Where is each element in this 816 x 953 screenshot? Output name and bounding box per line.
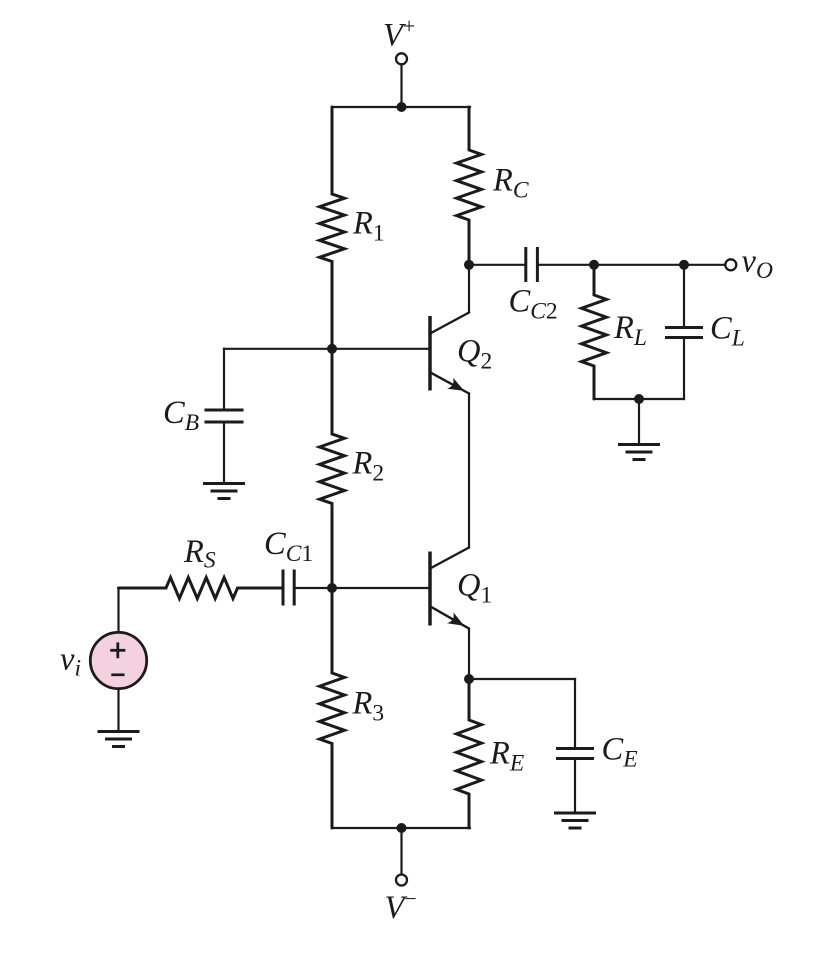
label V- <box>385 886 417 926</box>
terminal V+ <box>396 53 407 64</box>
ground CB <box>203 484 245 499</box>
terminal vO <box>725 259 736 270</box>
ground CE <box>554 813 596 828</box>
wire CB to ground <box>223 424 225 484</box>
resistor RL <box>582 265 607 399</box>
label RS <box>183 534 216 574</box>
wire Q1 emitter <box>468 629 470 679</box>
wire Q1 base <box>296 587 429 589</box>
junction RL top node <box>589 260 599 270</box>
label R2 <box>352 446 385 487</box>
wire emitter to CE <box>469 678 575 680</box>
wire output ground stem <box>638 399 640 444</box>
wire Q2 base <box>332 348 429 350</box>
junction output ground node <box>634 394 644 404</box>
wire CB branch <box>224 348 332 350</box>
wire Q2 collector <box>468 265 470 313</box>
transistor Q1 <box>430 548 469 629</box>
source vi <box>90 632 146 688</box>
resistor R1 <box>320 107 345 349</box>
junction Q2 base node <box>327 344 337 354</box>
ground vi <box>98 732 140 747</box>
wire V+ stem <box>400 65 402 108</box>
wire CC2 left lead <box>469 264 524 266</box>
capacitor CB <box>205 410 244 422</box>
junction top rail node <box>397 102 407 112</box>
wire top rail <box>332 106 470 108</box>
label vi <box>60 642 81 682</box>
label CL <box>710 311 745 352</box>
resistor RS <box>119 578 282 599</box>
label R3 <box>352 686 385 727</box>
transistor Q2 <box>430 313 469 394</box>
label RL <box>613 310 647 351</box>
wire RL CL bottom <box>594 398 684 400</box>
capacitor CL <box>665 265 703 399</box>
label RC <box>492 163 529 204</box>
wire source to ground <box>117 689 119 731</box>
resistor RC <box>457 107 482 265</box>
resistor RE <box>457 679 482 828</box>
capacitor CC2 <box>526 247 538 282</box>
ground output <box>618 445 660 460</box>
junction Q1 base node <box>327 583 337 593</box>
label Q2 <box>457 334 492 375</box>
wire output net <box>539 264 724 266</box>
label vO <box>742 244 773 285</box>
capacitor CC1 <box>283 570 294 606</box>
junction CL top node <box>679 260 689 270</box>
junction emitter node <box>464 674 474 684</box>
wire Q2 emitter to Q1 collector <box>468 394 470 548</box>
label RE <box>489 736 524 777</box>
label Q1 <box>457 568 492 609</box>
wire CB top lead <box>223 349 225 409</box>
label CC2 <box>509 284 558 325</box>
label CC1 <box>264 526 313 567</box>
resistor R2 <box>320 349 345 588</box>
wire bottom rail <box>332 827 470 829</box>
wire source to RS <box>117 588 119 633</box>
label CB <box>163 395 199 436</box>
label V+ <box>383 14 415 54</box>
label CE <box>602 732 638 773</box>
capacitor CE <box>556 679 594 813</box>
junction bottom rail node <box>397 823 407 833</box>
label R1 <box>352 206 385 247</box>
junction collector node <box>464 260 474 270</box>
terminal V- <box>396 875 407 886</box>
wire V- stem <box>400 828 402 873</box>
resistor R3 <box>320 588 345 828</box>
